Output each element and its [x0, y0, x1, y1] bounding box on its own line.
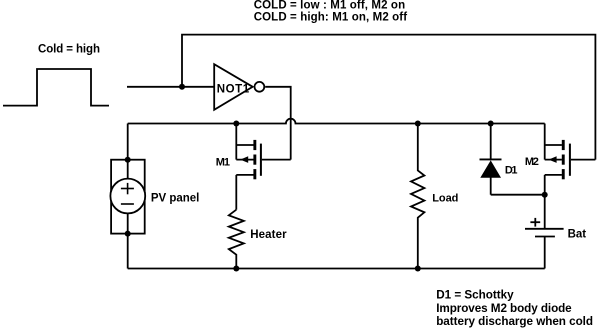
- svg-text:D1 = Schottky: D1 = Schottky: [436, 289, 514, 302]
- svg-text:COLD = low : M1 off, M2 on: COLD = low : M1 off, M2 on: [254, 0, 405, 12]
- source PV panel rectangle: [111, 160, 145, 234]
- inverter NOT1 output bubble: [255, 82, 265, 92]
- svg-text:Heater: Heater: [250, 229, 287, 241]
- resistor Heater zigzag: [229, 210, 244, 269]
- wire: bottom bus: [128, 268, 545, 270]
- svg-text:M2: M2: [525, 156, 539, 168]
- node: bottom bus at Load: [415, 266, 421, 272]
- PV panel plus sign: [121, 183, 134, 194]
- svg-text:Cold = high: Cold = high: [38, 44, 100, 56]
- wire: feedback from input junction up and across to M2 gate: [182, 35, 595, 160]
- op-amp style inverter NOT1 triangle: [214, 64, 253, 110]
- node: bottom bus at Heater: [233, 266, 239, 272]
- wire: PV panel vertical: [127, 124, 129, 269]
- node: PV top: [125, 157, 131, 163]
- note text D1 = Schottky: [436, 289, 514, 302]
- node: top bus at D1: [488, 121, 494, 127]
- note text battery discharge when cold: [436, 315, 593, 328]
- svg-text:PV panel: PV panel: [151, 193, 199, 205]
- node: M2 source / D1 / battery junction: [542, 192, 548, 198]
- svg-text:M1: M1: [216, 156, 230, 168]
- wire: NOT1 output to M1 gate: [265, 87, 291, 160]
- label NOT1: [217, 84, 250, 96]
- transistor M2 body: [545, 124, 596, 230]
- resistor Load zigzag with leads: [411, 124, 424, 269]
- node: top bus at M1 drain: [233, 121, 239, 127]
- note text Improves M2 body diode: [436, 302, 572, 315]
- transistor M1 body: [236, 124, 290, 210]
- label Load: [432, 193, 458, 205]
- wire: NOT1 input: [127, 86, 214, 88]
- svg-text:D1: D1: [505, 165, 518, 177]
- battery Bat plates: [525, 229, 564, 269]
- label M2: [525, 156, 539, 168]
- node: junction on NOT1 input: [179, 84, 185, 90]
- label Bat: [568, 229, 587, 241]
- wire: pulse waveform for COLD signal: [3, 69, 109, 106]
- svg-text:Load: Load: [432, 193, 458, 205]
- battery Bat plus sign: [530, 218, 540, 227]
- label PV panel: [151, 193, 199, 205]
- svg-text:NOT1: NOT1: [217, 84, 250, 96]
- node: top bus at Load: [415, 121, 421, 127]
- svg-text:battery discharge when cold: battery discharge when cold: [436, 315, 593, 328]
- PV panel minus sign: [121, 203, 134, 205]
- wire: top bus with hop over M1 gate wire: [128, 119, 545, 124]
- label Cold = high: [38, 44, 100, 56]
- label M1: [216, 156, 230, 168]
- label Heater: [250, 229, 287, 241]
- svg-text:COLD = high: M1 on, M2 off: COLD = high: M1 on, M2 off: [254, 12, 408, 24]
- node: PV bottom: [125, 231, 131, 237]
- diode D1 (Schottky): [480, 124, 545, 195]
- svg-text:Bat: Bat: [568, 229, 587, 241]
- note text COLD legend line 2: [254, 12, 408, 24]
- svg-text:Improves M2 body diode: Improves M2 body diode: [436, 302, 572, 315]
- source PV panel circle body: [110, 179, 145, 214]
- label D1: [505, 165, 518, 177]
- note text COLD legend line 1: [254, 0, 405, 12]
